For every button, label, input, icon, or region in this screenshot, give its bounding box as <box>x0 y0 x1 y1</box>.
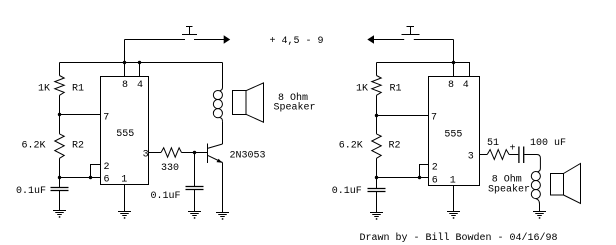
wire: pin 3 stub (right) <box>480 154 488 156</box>
wire: right rail between R2 and capacitor <box>376 158 378 188</box>
ground (right pin 1) <box>447 212 460 219</box>
wire: left rail between R1 and R2 <box>59 95 61 134</box>
wire: left rail top segment <box>59 63 61 76</box>
svg-text:+ 4,5 - 9: + 4,5 - 9 <box>270 36 324 47</box>
pushbutton switch (right) <box>402 27 420 35</box>
wire: left V+ top rail <box>60 62 223 64</box>
svg-text:7: 7 <box>431 112 437 123</box>
svg-text:1K: 1K <box>38 83 50 94</box>
speaker (right) <box>551 164 581 204</box>
node: junction pin7/rail (right) <box>375 114 378 117</box>
node: junction base/cap (left) <box>193 151 196 154</box>
wire: left rail capacitor to ground <box>59 191 61 211</box>
resistor 51 <box>487 150 509 160</box>
svg-text:1: 1 <box>450 175 456 186</box>
svg-text:8: 8 <box>448 80 454 91</box>
wire: 51 to capacitor <box>509 154 518 156</box>
svg-text:2: 2 <box>104 162 110 173</box>
wire: pin 8 drop and power tap (left) <box>124 40 126 77</box>
arrow to positive supply (left) <box>224 35 231 43</box>
capacitor 0.1uF (base) plates <box>186 187 204 190</box>
wire: right rail between R1 and R2 <box>376 95 378 134</box>
svg-text:6.2K: 6.2K <box>22 141 46 152</box>
capacitor 100 uF plates <box>519 147 524 164</box>
wire: pushbutton to pin8 drop (right) <box>414 39 454 41</box>
wire: pin 2 bracket (left) <box>91 165 101 178</box>
svg-text:51: 51 <box>487 138 499 149</box>
node: junction pin7/rail (left) <box>58 113 61 116</box>
svg-text:7: 7 <box>103 112 109 123</box>
svg-text:1K: 1K <box>356 83 368 94</box>
svg-text:Drawn by - Bill Bowden - 04/16: Drawn by - Bill Bowden - 04/16/98 <box>360 232 558 244</box>
node: junction V+/pin8 (right) <box>452 61 455 64</box>
node: junction pin2/pin6 (right) <box>418 176 421 179</box>
svg-text:6.2K: 6.2K <box>339 141 363 152</box>
resistor R2 (left, 6.2K) <box>55 134 64 158</box>
wire: pin 6 to rail (left) <box>60 177 101 179</box>
svg-text:R2: R2 <box>72 141 84 152</box>
wire: base capacitor to ground <box>194 190 196 212</box>
node: junction V+/pin8 (left) <box>123 61 126 64</box>
ground (emitter) <box>216 213 229 220</box>
arrow to positive supply (right) <box>367 35 374 43</box>
capacitor 0.1uF (base) lead <box>194 153 196 187</box>
node: junction pin6/rail (right) <box>375 176 378 179</box>
wire: left rail between R2 and capacitor <box>59 158 61 187</box>
wire: pin 4 drop (left) <box>139 63 141 77</box>
wire: emitter to ground <box>222 163 224 213</box>
ground (left pin 1) <box>118 212 131 219</box>
node: junction V+/pin4 (left) <box>138 61 141 64</box>
node: junction pin2/pin6 (left) <box>89 176 92 179</box>
wire: pin 3 stub (left) <box>149 152 162 154</box>
svg-text:2N3053: 2N3053 <box>230 150 266 161</box>
resistor R1 (right, 1K) <box>372 76 381 96</box>
wire: right rail top segment <box>376 63 378 76</box>
wire: pin 7 to rail (right) <box>377 115 429 117</box>
resistor 330 <box>161 148 182 157</box>
svg-text:3: 3 <box>468 151 474 162</box>
resistor R1 (left, 1K) <box>55 76 64 96</box>
svg-text:1: 1 <box>121 174 127 185</box>
svg-text:4: 4 <box>137 80 143 91</box>
speaker coil (left) <box>213 63 222 122</box>
IC U1 555 (left) box <box>101 77 149 185</box>
svg-text:Speaker: Speaker <box>274 102 316 114</box>
svg-text:2: 2 <box>432 162 438 173</box>
transistor Q1 2N3053 <box>208 144 223 164</box>
wire: right V+ top rail <box>377 63 470 77</box>
pushbutton switch (left) <box>182 27 197 35</box>
svg-text:4: 4 <box>463 80 469 91</box>
speaker coil (right) <box>531 172 540 212</box>
wire: pin 1 to ground (right) <box>453 186 455 212</box>
svg-text:3: 3 <box>143 149 149 160</box>
wire: pin 2 bracket (right) <box>420 165 429 178</box>
svg-text:+: + <box>510 144 516 155</box>
svg-text:Speaker: Speaker <box>488 184 530 196</box>
wire: pin 7 to rail (left) <box>60 114 101 116</box>
svg-text:R1: R1 <box>72 83 84 94</box>
wire: 330 to transistor base <box>182 152 208 154</box>
wire: to pushbutton (left) <box>125 39 186 41</box>
node: junction pin6/rail (left) <box>58 176 61 179</box>
svg-text:R1: R1 <box>390 83 402 94</box>
wire: arrow to pushbutton (right) <box>374 39 404 41</box>
resistor R2 (right, 6.2K) <box>372 134 381 158</box>
svg-text:330: 330 <box>161 163 179 174</box>
svg-text:R2: R2 <box>389 141 401 152</box>
svg-text:100 uF: 100 uF <box>530 138 566 149</box>
svg-text:8: 8 <box>122 80 128 91</box>
wire: pushbutton to supply arrow (left) <box>194 39 224 41</box>
svg-text:0.1uF: 0.1uF <box>16 186 46 197</box>
svg-text:555: 555 <box>444 130 462 141</box>
svg-text:0.1uF: 0.1uF <box>332 186 362 197</box>
capacitor 0.1uF (right rail) <box>368 189 386 192</box>
wire: right rail capacitor to ground <box>376 192 378 213</box>
IC U2 555 (right) box <box>429 77 480 186</box>
ground (left rail) <box>53 211 66 218</box>
ground (base capacitor) <box>188 212 201 219</box>
speaker (left) <box>233 83 264 122</box>
wire: pin 1 to ground (left) <box>124 185 126 212</box>
ground (right rail) <box>370 213 383 220</box>
svg-text:0.1uF: 0.1uF <box>151 191 181 202</box>
svg-text:6: 6 <box>104 174 110 185</box>
ground (right speaker coil) <box>533 212 546 219</box>
svg-text:555: 555 <box>116 129 134 140</box>
wire: capacitor to speaker coil (right) <box>524 155 540 172</box>
wire: pin 8 drop and power tap (right) <box>453 40 455 77</box>
capacitor 0.1uF (left rail) <box>51 188 69 191</box>
wire: collector up to speaker coil <box>222 121 224 144</box>
wire: pin 6 to rail (right) <box>377 177 429 179</box>
svg-text:6: 6 <box>432 175 438 186</box>
